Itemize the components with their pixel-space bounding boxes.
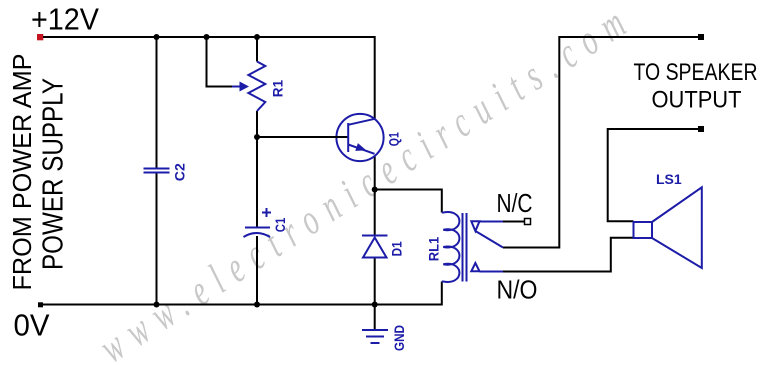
- junction bottom rail ground: [372, 302, 378, 308]
- junction emitter node: [372, 187, 378, 193]
- terminal 0V (black): [38, 302, 43, 307]
- svg-text:FROM POWER AMP: FROM POWER AMP: [7, 54, 37, 291]
- wire D1 upper: [374, 190, 376, 236]
- wire bottom rail 0V: [43, 282, 442, 305]
- wire C1 upper: [256, 137, 258, 227]
- capacitor C1 (electrolytic): [244, 208, 272, 237]
- svg-text:C1: C1: [272, 218, 288, 233]
- potentiometer R1 zigzag: [248, 62, 265, 112]
- transistor Q1 emitter stroke: [348, 145, 374, 154]
- wire wiper branch: [207, 37, 233, 87]
- terminal speaker 2: [698, 126, 704, 132]
- junction base node: [254, 134, 260, 140]
- relay RL1 coil: [442, 212, 460, 282]
- wire ground stub: [374, 305, 376, 330]
- relay contact N/O triangle: [471, 263, 479, 271]
- junction top rail C2: [154, 34, 160, 40]
- wire C1 lower: [256, 236, 258, 305]
- svg-text:OUTPUT: OUTPUT: [652, 87, 742, 114]
- svg-text:+12V: +12V: [31, 2, 99, 37]
- wire R1 bottom to base node: [256, 111, 258, 137]
- relay contact N/C triangle: [471, 221, 479, 231]
- wire relay common to speaker terminal 1: [503, 37, 698, 248]
- wire speaker terminal 2 to speaker top: [608, 129, 698, 221]
- junction bottom rail C2: [154, 302, 160, 308]
- svg-text:N/O: N/O: [497, 275, 538, 305]
- diode D1 cathode bar: [362, 235, 388, 237]
- junction bottom rail C1: [254, 302, 260, 308]
- relay contact N/C lead: [480, 221, 504, 223]
- relay common arm: [475, 231, 503, 248]
- wire C2 branch lower: [156, 174, 158, 305]
- relay contact N/O lead: [480, 271, 504, 273]
- transistor Q1 emitter arrow: [355, 143, 366, 151]
- transistor Q1 collector stroke: [348, 119, 375, 125]
- wire emitter to node: [374, 155, 376, 190]
- svg-text:0V: 0V: [14, 308, 50, 343]
- svg-text:C2: C2: [171, 163, 187, 181]
- junction top rail wiper: [204, 34, 210, 40]
- terminal +12V (red): [37, 34, 43, 40]
- relay RL1 core bars: [463, 213, 467, 282]
- wire R1 top: [256, 37, 258, 62]
- svg-text:Q1: Q1: [385, 132, 401, 146]
- wire N/C stub: [503, 221, 525, 223]
- terminal speaker 1: [698, 34, 704, 40]
- speaker LS1 cone: [652, 187, 702, 268]
- wire node to relay coil top: [375, 190, 442, 213]
- svg-text:N/C: N/C: [497, 188, 533, 218]
- terminal N/C (open square): [525, 219, 531, 225]
- wire C2 branch upper: [156, 37, 158, 168]
- ground symbol: [362, 330, 388, 343]
- svg-text:R1: R1: [270, 80, 286, 97]
- wire N/O to speaker bottom: [503, 238, 634, 272]
- transistor Q1 circle: [336, 114, 383, 161]
- svg-text:POWER SUPPLY: POWER SUPPLY: [37, 78, 69, 270]
- speaker LS1 driver square: [634, 222, 653, 238]
- transistor Q1 base bar: [347, 123, 349, 152]
- svg-text:D1: D1: [389, 241, 405, 256]
- diode D1 triangle: [363, 238, 387, 258]
- junction top rail R1: [254, 34, 260, 40]
- svg-text:RL1: RL1: [425, 237, 441, 262]
- svg-text:GND: GND: [391, 325, 407, 351]
- svg-text:LS1: LS1: [656, 171, 682, 187]
- potentiometer R1 wiper arrow: [232, 86, 240, 88]
- wire base: [257, 136, 348, 138]
- capacitor C2: [144, 169, 170, 173]
- svg-text:TO SPEAKER: TO SPEAKER: [634, 59, 758, 86]
- wire top rail +12V to collector: [43, 37, 375, 119]
- wire D1 lower: [374, 258, 376, 305]
